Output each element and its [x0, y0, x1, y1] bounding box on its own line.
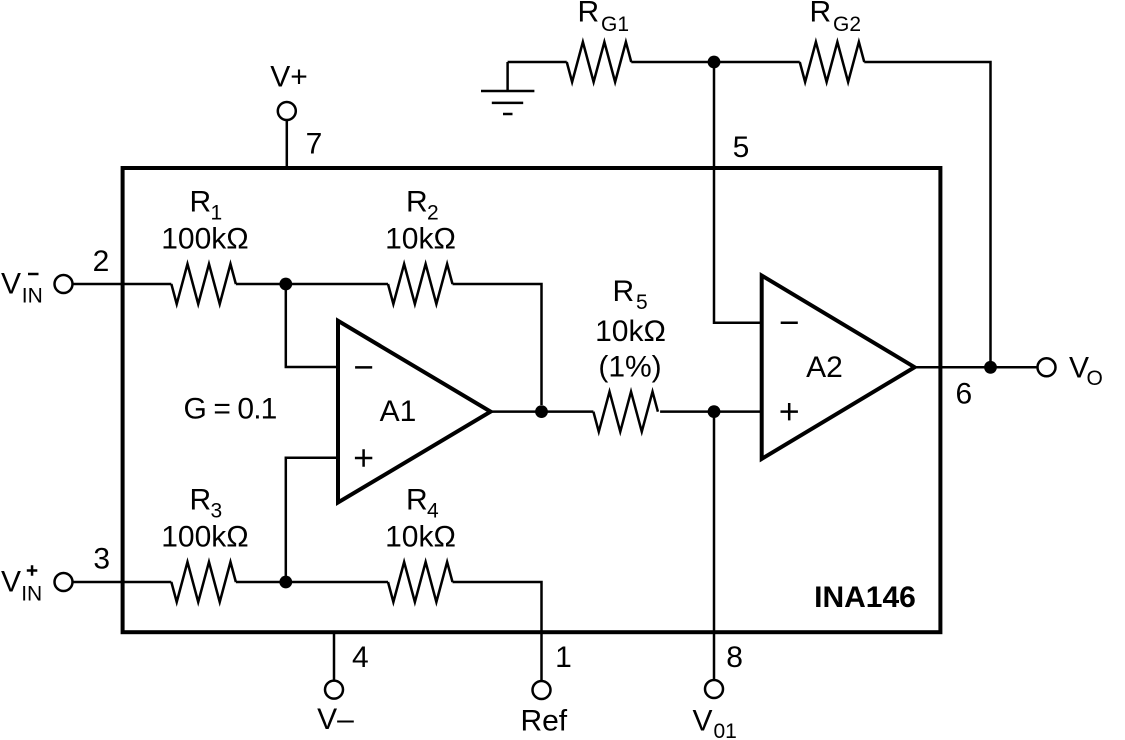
- svg-text:01: 01: [714, 720, 737, 740]
- wire ground to RG1: [508, 61, 567, 64]
- terminal VIN+: [55, 573, 73, 591]
- terminal VO: [1038, 358, 1056, 376]
- wire R2 to A1 output node: [453, 284, 542, 405]
- svg-text:V–: V–: [317, 703, 354, 736]
- resistor R2: [388, 264, 453, 304]
- svg-text:V+: V+: [270, 61, 308, 94]
- svg-text:A2: A2: [806, 351, 843, 384]
- svg-text:10kΩ: 10kΩ: [385, 222, 456, 255]
- wire RG2 to output node: [864, 62, 990, 361]
- svg-text:100kΩ: 100kΩ: [161, 222, 248, 255]
- wire R5 to A2 noninverting input: [660, 410, 762, 413]
- ground: [481, 62, 534, 114]
- node gain junction dot: [708, 56, 721, 69]
- wire R4 to Ref terminal (pin 1): [453, 582, 542, 681]
- IC outline box INA146: [123, 168, 941, 632]
- svg-text:V: V: [1, 268, 21, 301]
- wire node to A1 inverting input: [286, 284, 338, 367]
- wire pin 4: [333, 632, 336, 681]
- wire R1 to R2: [236, 283, 388, 286]
- svg-text:4: 4: [427, 500, 439, 523]
- svg-text:R: R: [613, 275, 635, 308]
- terminal V+: [278, 102, 296, 120]
- svg-text:R: R: [406, 185, 428, 218]
- svg-text:G = 0.1: G = 0.1: [184, 393, 277, 426]
- svg-text:5: 5: [636, 291, 648, 314]
- wire R3 to R4: [236, 581, 388, 584]
- svg-text:10kΩ: 10kΩ: [385, 520, 456, 553]
- wire V+ to box (pin 7): [286, 120, 289, 168]
- op-amp A1: [338, 321, 491, 503]
- A1 plus sign: [355, 449, 372, 466]
- svg-text:G1: G1: [601, 13, 629, 36]
- A2 plus sign: [781, 403, 798, 420]
- A1 minus sign: [355, 366, 372, 369]
- svg-text:1: 1: [555, 641, 572, 674]
- svg-text:8: 8: [726, 641, 743, 674]
- svg-text:R: R: [190, 185, 212, 218]
- resistor RG2: [800, 42, 865, 82]
- svg-text:10kΩ: 10kΩ: [595, 315, 666, 348]
- svg-text:100kΩ: 100kΩ: [161, 520, 248, 553]
- svg-text:3: 3: [211, 500, 223, 523]
- svg-text:IN: IN: [22, 285, 43, 308]
- wire VIN+ to R3: [72, 581, 171, 584]
- svg-text:Ref: Ref: [520, 705, 567, 738]
- node summing junction dot: [279, 278, 292, 291]
- resistor R4: [388, 562, 453, 602]
- svg-text:IN: IN: [21, 583, 42, 606]
- svg-text:O: O: [1087, 367, 1103, 390]
- svg-text:2: 2: [427, 202, 439, 225]
- svg-text:3: 3: [93, 543, 110, 576]
- svg-text:1: 1: [211, 202, 223, 225]
- node output junction dot: [984, 361, 997, 374]
- resistor R3: [171, 562, 236, 602]
- resistor RG1: [567, 42, 632, 82]
- svg-text:7: 7: [306, 128, 323, 161]
- wire node to pin 8 terminal: [713, 412, 716, 681]
- svg-text:R: R: [406, 483, 428, 516]
- svg-text:2: 2: [93, 245, 110, 278]
- wire A2 output to VO: [915, 366, 1038, 369]
- op-amp A2: [762, 276, 915, 459]
- wire VIN- to R1: [72, 283, 171, 286]
- resistor R1: [171, 264, 236, 304]
- terminal V-: [325, 681, 343, 699]
- A2 minus sign: [781, 322, 798, 325]
- node noninverting junction dot: [279, 576, 292, 589]
- svg-text:R: R: [578, 0, 600, 29]
- svg-text:R: R: [190, 483, 212, 516]
- wire RG1 to RG2: [631, 61, 800, 64]
- node A1 output dot: [535, 405, 548, 418]
- node V01 junction dot: [708, 405, 721, 418]
- terminal Ref: [533, 681, 551, 699]
- svg-text:4: 4: [352, 641, 369, 674]
- svg-text:A1: A1: [380, 395, 417, 428]
- svg-text:5: 5: [733, 131, 750, 164]
- svg-text:INA146: INA146: [814, 581, 916, 614]
- wire feedback node to A2 inverting input (pin 5): [714, 62, 762, 323]
- svg-text:V: V: [693, 705, 713, 738]
- wire A1 output to R5: [491, 410, 594, 413]
- svg-text:V: V: [1, 566, 21, 599]
- svg-text:G2: G2: [833, 13, 861, 36]
- svg-text:(1%): (1%): [598, 351, 661, 384]
- svg-text:R: R: [810, 0, 832, 29]
- wire node to A1 noninverting input: [286, 458, 338, 582]
- terminal V01: [705, 680, 723, 698]
- svg-text:6: 6: [955, 378, 972, 411]
- resistor R5: [593, 392, 658, 432]
- terminal VIN-: [55, 275, 73, 293]
